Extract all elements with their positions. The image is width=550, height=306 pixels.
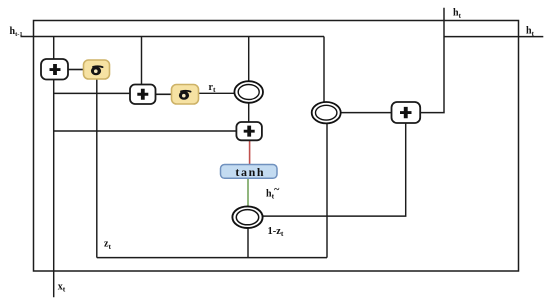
wire h_t-1 down to multiplier circle M2 [323,37,325,103]
multiplier circle M1 [234,81,263,103]
wire z_t up to multiplier circle M2 bottom [326,123,328,257]
wire x_t vertical lower segment [53,80,55,298]
wire h_t-1 horizontal [21,36,325,38]
sigma box S2 [172,85,199,105]
plus box P2 [130,85,156,105]
wire plus P1 to sigma S1 [68,69,84,71]
tanh box [221,165,278,179]
plus box P1 [41,59,68,80]
wire r_t sigma S2 to multiplier circle M1 [199,92,235,94]
wire x_t branch to plus P3 [54,130,237,132]
plus box P4 [392,102,421,123]
wire h_t-1 branch down to multiplier circle M1 [248,37,250,82]
wire multiplier circle M1 to plus P3 [248,103,250,122]
wire green tanh to multiplier circle M3 [247,178,249,206]
svg-text:tanh: tanh [235,165,265,179]
multiplier circle M2 [312,102,341,123]
wire red plus P3 to tanh [249,140,251,165]
wire multiplier circle M2 to plus P4 [341,112,392,114]
wire x_t vertical upper segment into plus P1 [53,37,55,60]
wire z_t bottom horizontal [97,257,327,259]
sigma box S1 [84,60,110,79]
wire h_t output right branch [444,36,543,38]
plus box P3 [236,122,262,140]
wire h_t-1 branch down to plus P2 [141,37,143,85]
wire plus P2 to sigma S2 [156,93,172,95]
multiplier circle M3 [232,206,262,228]
outer cell box [34,21,519,272]
wire multiplier circle M3 bottom drop [247,228,249,258]
wire multiplier circle M3 to plus P4 [263,123,406,216]
wire h_t output from plus P4 [420,8,444,113]
wire z_t vertical from sigma S1 [96,79,98,258]
wire x_t branch to plus P2 [54,92,130,94]
